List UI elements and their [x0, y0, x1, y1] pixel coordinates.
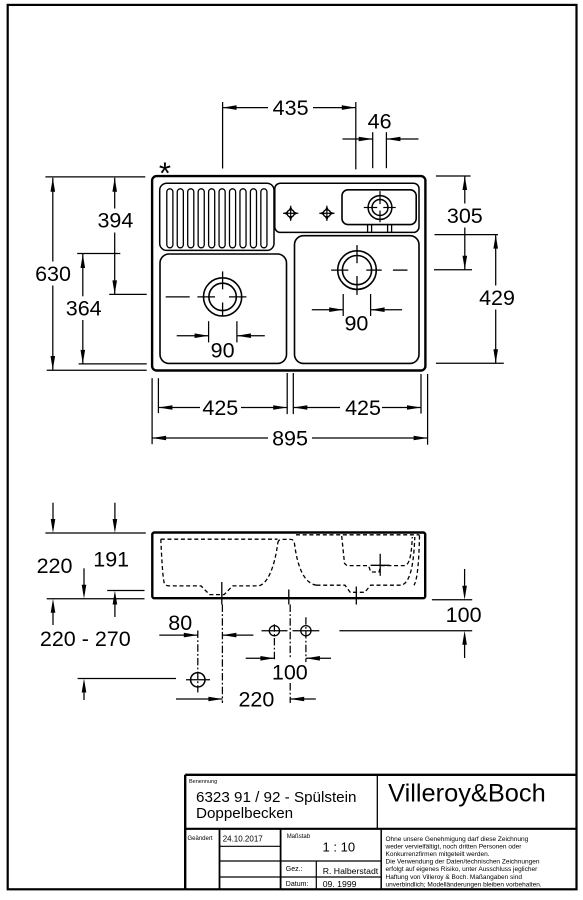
tap hole 1 crosshair — [262, 630, 288, 632]
svg-text:Ohne unsere Genehmigung darf d: Ohne unsere Genehmigung darf diese Zeich… — [386, 836, 529, 843]
tap hole marker right — [319, 206, 334, 221]
svg-text:100: 100 — [272, 660, 308, 684]
svg-text:305: 305 — [447, 204, 483, 228]
svg-text:erfolgt auf eigenes Risiko, un: erfolgt auf eigenes Risiko, unter Aussch… — [386, 866, 539, 873]
left drain inner circle — [209, 283, 236, 310]
title block left border — [184, 775, 186, 889]
extension line sink bottom left — [47, 369, 147, 371]
svg-text:Gez.:: Gez.: — [286, 866, 303, 873]
title block h2 — [220, 860, 382, 862]
svg-text:90: 90 — [211, 339, 235, 363]
faucet hole crosshair — [364, 207, 377, 209]
dim 90 left dimension line — [177, 335, 209, 337]
svg-text:100: 100 — [446, 603, 482, 627]
dim 305 dimension line — [464, 176, 466, 204]
extension line hole center level right — [339, 630, 472, 632]
extension line sink top left — [45, 176, 145, 178]
dim 80 dimension line — [159, 634, 198, 636]
left drain centerlines — [166, 296, 190, 298]
dim 364 dimension line — [82, 254, 84, 296]
axis faucet mid — [289, 605, 291, 660]
svg-text:895: 895 — [272, 427, 308, 451]
side view right basin dashed profile — [296, 535, 420, 593]
side view faucet basin dashed profile — [342, 536, 413, 572]
svg-text:435: 435 — [273, 96, 309, 120]
right drain inner circle — [342, 256, 371, 285]
rear deck strip — [275, 183, 419, 232]
extension line side top — [45, 532, 145, 534]
sink outer outline (top view) — [152, 176, 425, 370]
axis left drain — [221, 605, 223, 704]
faucet platform — [342, 190, 416, 225]
svg-text:weder vervielfältigt, noch dri: weder vervielfältigt, noch dritten Perso… — [385, 843, 523, 850]
left basin — [160, 254, 287, 363]
extension line drain center right — [434, 269, 472, 271]
extension line drain center left — [109, 293, 147, 295]
dim 435 dimension line — [223, 107, 268, 109]
drainboard grooves — [167, 189, 173, 248]
drainboard panel — [160, 183, 274, 250]
dim 90 right dimension line — [312, 309, 343, 311]
drilled hole circle — [191, 673, 205, 687]
dim 90 left extension lines — [208, 321, 210, 342]
svg-text:Doppelbecken: Doppelbecken — [196, 805, 293, 822]
svg-text:1 : 10: 1 : 10 — [323, 840, 356, 855]
dim 425 right dimension line — [293, 407, 340, 409]
svg-text:220: 220 — [238, 688, 274, 712]
dim 191 arrows — [114, 503, 116, 528]
svg-text:24.10.2017: 24.10.2017 — [223, 835, 264, 844]
extension line basin top left — [77, 253, 120, 255]
faucet hole inner circle — [372, 200, 388, 216]
side view outline — [152, 533, 425, 599]
title block v1 — [219, 829, 221, 889]
title block name/logo divider — [376, 775, 378, 829]
svg-text:425: 425 — [345, 396, 381, 420]
svg-text:220 - 270: 220 - 270 — [40, 627, 131, 651]
axis tap hole 2 — [305, 617, 307, 662]
dim 100 right arrows — [464, 569, 466, 595]
title block v4 — [315, 861, 317, 889]
title block v2 — [280, 829, 282, 889]
svg-text:90: 90 — [344, 312, 368, 336]
side view basin divider dashed — [278, 539, 317, 585]
side view left basin dashed profile — [161, 539, 278, 594]
svg-text:Villeroy&Boch: Villeroy&Boch — [388, 780, 546, 808]
svg-text:220: 220 — [37, 554, 73, 578]
svg-text:*: * — [159, 156, 171, 191]
dim 46 extension lines — [372, 132, 374, 168]
svg-text:Datum:: Datum: — [286, 881, 309, 888]
dim 895 dimension line — [152, 437, 268, 439]
extension line side bottom right — [432, 599, 472, 601]
svg-text:R. Halberstadt: R. Halberstadt — [323, 866, 379, 876]
extension lines below sink — [151, 378, 153, 444]
axis tap hole 1 — [273, 624, 275, 661]
axis drilled hole — [197, 631, 199, 693]
svg-text:429: 429 — [479, 286, 515, 310]
side view drain ticks — [221, 582, 223, 605]
dim 100 bottom dimension line — [246, 657, 275, 659]
dim 394 dimension line — [114, 178, 116, 209]
extension line basin bottom left — [79, 363, 147, 365]
dim 220 bottom dimension line — [176, 698, 222, 700]
extension line basin bottom right — [436, 362, 504, 364]
title block top border — [185, 774, 577, 776]
left drain outer circle — [204, 278, 242, 316]
svg-text:Geändert: Geändert — [188, 836, 213, 842]
svg-text:Maßstab: Maßstab — [287, 834, 311, 840]
svg-text:80: 80 — [168, 611, 192, 635]
svg-text:6323 91 / 92 - Spülstein: 6323 91 / 92 - Spülstein — [196, 789, 356, 806]
title block v3 — [380, 829, 382, 889]
drilled hole crosshair — [186, 679, 210, 681]
svg-text:364: 364 — [66, 296, 102, 320]
svg-text:09. 1999: 09. 1999 — [323, 879, 357, 889]
extension line 191 level — [107, 590, 144, 592]
svg-text:Benennung: Benennung — [189, 779, 217, 785]
dim 425 left dimension line — [158, 407, 200, 409]
dim 46 dimension line — [343, 138, 373, 140]
title block h3 — [220, 876, 382, 878]
right drain outer circle — [338, 251, 377, 290]
dim 220-270 arrows — [83, 568, 85, 594]
right drain centerlines — [331, 269, 348, 271]
dim 630 dimension line — [52, 178, 54, 262]
overflow tabs — [367, 225, 369, 233]
extension line basin top right — [435, 234, 499, 236]
dim 435 extension lines — [222, 102, 224, 169]
title block h1 — [220, 845, 281, 847]
tap hole 1 circle — [269, 626, 279, 636]
svg-text:191: 191 — [93, 548, 129, 572]
right basin — [295, 236, 420, 364]
svg-text:Konkurrenzfirmen mitgeteilt we: Konkurrenzfirmen mitgeteilt werden. — [386, 851, 490, 858]
tap hole 2 crosshair — [293, 630, 320, 632]
dim 90 right extension lines — [342, 294, 344, 316]
extension line sink top right — [436, 175, 471, 177]
svg-text:unverbindlich; Modelländerunge: unverbindlich; Modelländerungen bleiben … — [386, 881, 542, 888]
dim 429 dimension line — [495, 235, 497, 286]
extension line hole center level left — [78, 678, 176, 680]
svg-text:630: 630 — [35, 262, 71, 286]
svg-text:Haftung von Villeroy & Boch. M: Haftung von Villeroy & Boch. Maßangaben … — [386, 874, 523, 881]
svg-text:394: 394 — [97, 209, 133, 233]
extension line side bottom — [47, 598, 145, 600]
dim 220 side arrows — [52, 503, 54, 528]
svg-text:46: 46 — [368, 110, 392, 134]
tap hole marker left — [283, 206, 298, 221]
svg-text:425: 425 — [202, 396, 238, 420]
faucet hole outer circle — [368, 196, 392, 220]
side view faucet axis ticks — [379, 554, 381, 576]
title block row divider — [185, 828, 577, 830]
svg-text:Die Verwendung der Daten/techn: Die Verwendung der Daten/technischen Zei… — [386, 859, 540, 866]
tap hole 2 circle — [301, 626, 311, 636]
